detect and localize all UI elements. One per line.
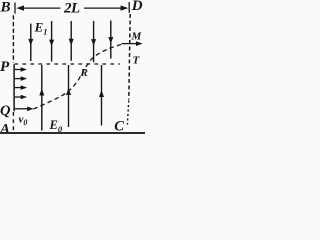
dimension line right segment with right arrowhead bbox=[84, 7, 123, 9]
particle arrow 4 bbox=[15, 95, 27, 100]
particle arrow v0 (bottom, longer) bbox=[15, 107, 34, 112]
dimension tick right bbox=[128, 2, 130, 13]
field arrow E1-5 bbox=[108, 21, 113, 59]
field arrow E1-2 bbox=[49, 21, 54, 62]
svg-text:R: R bbox=[80, 67, 88, 79]
bottom scan border bbox=[0, 132, 145, 134]
dashed boundary P-T (middle horizontal) bbox=[15, 63, 121, 65]
entrance segment P-Q (comb spine) bbox=[13, 64, 15, 111]
field arrow E1-3 bbox=[69, 21, 74, 61]
field arrow E1-4 bbox=[91, 21, 96, 62]
svg-text:M: M bbox=[131, 31, 143, 43]
svg-text:B: B bbox=[0, 0, 11, 16]
particle arrow 2 bbox=[15, 76, 27, 81]
trajectory exit arrow at M bbox=[122, 41, 143, 46]
field arrow E0-2 bbox=[66, 65, 71, 127]
dimension tick left bbox=[14, 3, 16, 14]
field arrow E1-1 bbox=[28, 24, 33, 61]
trajectory dashed curve Q-R-M bbox=[34, 44, 125, 109]
dashed boundary Q-A (left, lower) bbox=[12, 112, 14, 131]
field arrow E0-3 bbox=[99, 65, 104, 126]
svg-text:Q: Q bbox=[0, 103, 11, 119]
particle arrow 1 bbox=[15, 67, 27, 72]
dimension line left segment with left arrowhead bbox=[22, 7, 60, 9]
svg-text:2L: 2L bbox=[63, 0, 80, 16]
dashed boundary B-P (left, upper) bbox=[12, 15, 14, 62]
particle arrow 3 bbox=[15, 85, 27, 90]
field arrow E0-1 bbox=[39, 65, 44, 131]
dotted boundary right lower part bbox=[127, 101, 128, 125]
dashed boundary D-T-C (right) upper part bbox=[129, 14, 130, 100]
svg-text:D: D bbox=[131, 0, 143, 14]
svg-text:P: P bbox=[0, 59, 10, 75]
svg-text:C: C bbox=[114, 118, 124, 134]
